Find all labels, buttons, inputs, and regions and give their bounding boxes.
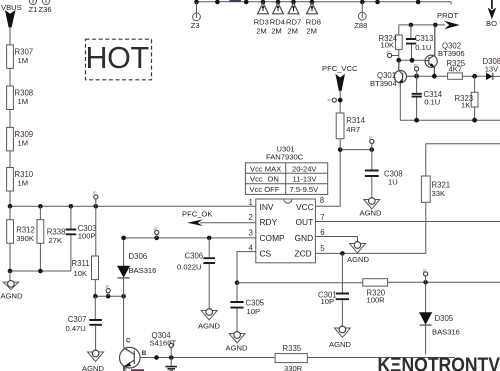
svg-text:8: 8 [320, 196, 324, 205]
wire PROT rail [399, 23, 445, 28]
label U301 [266, 144, 304, 161]
svg-text:RD7: RD7 [286, 18, 301, 27]
ground AGND below C305 [226, 332, 248, 353]
svg-text:1K: 1K [461, 101, 470, 110]
capacitor C308 [365, 150, 403, 200]
resistor R314 [336, 113, 365, 150]
test point above base bus [168, 340, 173, 357]
svg-text:JP: JP [168, 340, 173, 344]
svg-text:JP: JP [154, 227, 159, 231]
resistor R323 [455, 76, 479, 120]
svg-text:AGND: AGND [226, 344, 248, 353]
resistor R324 [379, 25, 403, 60]
svg-text:Vcc: Vcc [250, 175, 263, 184]
svg-text:RD3: RD3 [254, 18, 269, 27]
capacitor C313 [406, 25, 433, 60]
connector Z3 [191, 2, 201, 30]
wire VCC pin8 route [315, 147, 374, 206]
svg-text:6: 6 [320, 228, 324, 237]
ground AGND below R312 [1, 271, 23, 301]
svg-text:VCC: VCC [296, 202, 314, 212]
connector Z88 [354, 2, 367, 30]
svg-text:20-24V: 20-24V [292, 164, 317, 173]
svg-text:JP: JP [369, 136, 374, 140]
resistor RD4 [270, 3, 285, 36]
svg-text:PFC_VCC: PFC_VCC [322, 64, 358, 73]
ground AGND below C308 [360, 198, 382, 218]
wire R310 to INV bus [9, 191, 11, 206]
test point above emitter rail [414, 64, 419, 77]
pin number 1 [249, 198, 253, 207]
connector Z1 [29, 0, 38, 14]
wire RDY pin2 [200, 222, 256, 224]
resistor R310 [7, 168, 34, 192]
svg-text:2: 2 [249, 213, 253, 222]
resistor R311 [72, 206, 99, 296]
svg-text:390K: 390K [16, 234, 34, 243]
svg-text:JP: JP [387, 50, 392, 54]
resistor R312 [7, 206, 35, 271]
svg-text:ZCD: ZCD [295, 249, 312, 259]
svg-text:JP: JP [327, 99, 332, 103]
transistor Q301 BT3904 [370, 60, 417, 88]
svg-text:BT3904: BT3904 [370, 79, 397, 88]
wire GND pin6 [315, 237, 357, 244]
ground AGND below C306 [198, 309, 220, 331]
wire ZCD pin5 [315, 176, 425, 256]
svg-text:Vcc OFF: Vcc OFF [250, 185, 280, 194]
svg-text:KΞNOTRONTV: KΞNOTRONTV [378, 353, 500, 371]
op-amp U301 FAN7930C body [256, 199, 316, 263]
transistor Q302 BT3906 [425, 25, 465, 76]
svg-text:5: 5 [320, 244, 325, 253]
node dots on INV bus [8, 204, 98, 209]
svg-text:1M: 1M [18, 97, 29, 106]
HOT dashed area [86, 39, 152, 80]
svg-text:AGND: AGND [82, 364, 104, 371]
test point on COMP wire [154, 227, 159, 238]
svg-text:R311: R311 [72, 259, 90, 268]
svg-text:ON: ON [268, 175, 279, 184]
resistor RD3 [254, 3, 269, 36]
resistor R338 [37, 206, 65, 271]
wire R311 bottom node [93, 294, 126, 299]
svg-text:BO: BO [486, 19, 497, 28]
svg-text:0.1U: 0.1U [415, 43, 431, 52]
ground earth below base bus [165, 358, 177, 371]
capacitor C307 [66, 296, 102, 352]
resistor R320 [363, 279, 388, 305]
wire VBUS to R307 [9, 27, 11, 45]
pin number 4 [249, 244, 254, 253]
svg-text:1M: 1M [18, 179, 29, 188]
resistor RD7 [286, 3, 301, 36]
diode D306 BAS316 [117, 238, 156, 296]
svg-text:CS: CS [260, 249, 272, 259]
svg-text:10P: 10P [247, 307, 261, 316]
svg-text:Vcc MAX: Vcc MAX [250, 164, 281, 173]
svg-text:COMP: COMP [260, 233, 286, 243]
svg-text:PROT: PROT [437, 11, 458, 20]
net PFC_OK [182, 209, 212, 226]
wire R309-R310 [9, 151, 11, 168]
svg-text:10P: 10P [321, 297, 335, 306]
wire base rail y60 [396, 58, 425, 63]
svg-text:0.1U: 0.1U [424, 98, 440, 107]
svg-text:HOT: HOT [86, 41, 149, 75]
resistor RD8 [306, 3, 321, 36]
svg-text:13V: 13V [485, 64, 499, 73]
svg-text:27K: 27K [49, 236, 63, 245]
capacitor C301 [318, 253, 349, 328]
resistor R325 [447, 59, 487, 79]
svg-text:R314: R314 [346, 116, 365, 125]
svg-text:RDY: RDY [260, 217, 278, 227]
svg-text:INV: INV [260, 202, 274, 212]
net VBUS [1, 3, 22, 28]
pin number 2 [249, 213, 253, 222]
wire bottom of R312/R338/C303 [8, 269, 71, 274]
resistor R307 [7, 45, 34, 69]
capacitor C303 [66, 206, 97, 271]
test point at PFC_VCC node [327, 98, 337, 103]
wire Q304 base bus [140, 355, 455, 360]
transistor Q304 S4160T [120, 331, 177, 371]
svg-text:1U: 1U [388, 177, 398, 186]
diode D305 BAS316 [419, 282, 460, 354]
test point above R311 top [93, 191, 98, 206]
ground AGND below C307 [82, 350, 104, 371]
wire bottom rail y120 [400, 86, 500, 123]
svg-text:1: 1 [249, 198, 253, 207]
svg-text:7.5-9.5V: 7.5-9.5V [290, 185, 320, 194]
svg-text:33K: 33K [432, 189, 446, 198]
svg-text:BAS316: BAS316 [129, 266, 157, 275]
ground AGND pin6 [347, 242, 369, 264]
svg-text:JP: JP [93, 191, 98, 195]
wire top bus [197, 2, 452, 5]
svg-text:D306: D306 [129, 252, 148, 261]
resistor R335 [275, 344, 307, 371]
svg-text:2M: 2M [306, 27, 317, 36]
test point above C308 [369, 136, 374, 149]
pin number 6 [320, 228, 324, 237]
svg-text:VBUS: VBUS [1, 3, 22, 12]
test point above R320 node [423, 269, 428, 283]
svg-text:C313: C313 [415, 34, 434, 43]
svg-text:JP: JP [414, 64, 419, 68]
test point left of R324 bottom [387, 50, 399, 58]
svg-text:10K: 10K [74, 269, 88, 278]
net PFC_VCC [322, 64, 358, 91]
pin number 8 [320, 196, 324, 205]
net PROT [437, 11, 460, 30]
resistor R321 [421, 144, 500, 203]
svg-text:Z3: Z3 [191, 21, 200, 30]
svg-text:RD4: RD4 [270, 18, 285, 27]
svg-text:GND: GND [295, 233, 314, 243]
net BO arrow [486, 0, 497, 28]
svg-text:Z36: Z36 [39, 5, 52, 14]
ground AGND below C301 [329, 326, 351, 349]
svg-text:11-13V: 11-13V [293, 175, 318, 184]
node junction dots on top bus [194, 0, 420, 4]
resistor R308 [7, 86, 34, 110]
svg-text:PFC_OK: PFC_OK [182, 209, 212, 218]
svg-text:10K: 10K [381, 41, 395, 50]
diode D308 13V [483, 57, 500, 80]
test point at R311 bottom [105, 285, 110, 296]
net label fragment on top bus [230, 0, 242, 2]
capacitor C306 [177, 238, 215, 311]
svg-text:OUT: OUT [296, 217, 314, 227]
label fragment cut at bottom below Q304 [131, 369, 144, 371]
wire PFC_VCC to R314 [338, 90, 343, 113]
wire R320 to right edge [388, 280, 500, 285]
wire D306 node to Q304 collector [123, 296, 125, 347]
svg-text:100R: 100R [367, 295, 386, 304]
svg-text:B: B [142, 350, 147, 357]
wire CS pin4 route [235, 252, 256, 285]
svg-text:1M: 1M [18, 56, 29, 65]
svg-text:7: 7 [320, 213, 324, 222]
svg-text:Z88: Z88 [354, 21, 367, 30]
watermark KENOTRONTV [378, 353, 500, 371]
table Vcc specs [245, 163, 327, 195]
svg-text:3: 3 [249, 228, 253, 237]
svg-text:JP: JP [423, 269, 428, 273]
svg-text:4R7: 4R7 [346, 125, 360, 134]
svg-text:330R: 330R [284, 364, 303, 371]
svg-text:0.47U: 0.47U [66, 324, 86, 333]
svg-text:Z1: Z1 [29, 5, 38, 14]
svg-text:C306: C306 [185, 251, 204, 260]
svg-text:AGND: AGND [1, 292, 23, 301]
svg-text:AGND: AGND [347, 255, 369, 264]
capacitor C305 [230, 283, 264, 334]
capacitor C314 [412, 76, 443, 120]
wire emitter rail y76 [407, 74, 448, 79]
wire COMP pin3 [121, 236, 256, 241]
svg-text:BT3906: BT3906 [438, 49, 465, 58]
svg-text:AGND: AGND [198, 321, 220, 330]
wire CS node to R320 [237, 282, 363, 284]
svg-text:1M: 1M [18, 139, 29, 148]
svg-text:4K7: 4K7 [449, 65, 463, 74]
svg-text:JP: JP [105, 285, 110, 289]
wire R308-R309 [9, 110, 11, 128]
svg-text:AGND: AGND [329, 340, 351, 349]
wire OUT pin7 [315, 221, 500, 223]
svg-text:BAS316: BAS316 [432, 327, 460, 336]
svg-text:0.022U: 0.022U [177, 262, 202, 271]
svg-text:100P: 100P [78, 232, 96, 241]
wire R307-R308 [9, 68, 11, 86]
svg-text:2M: 2M [271, 27, 282, 36]
pin number 3 [249, 228, 253, 237]
pin number 5 [320, 244, 325, 253]
connector Z36 [39, 0, 52, 14]
svg-text:AGND: AGND [360, 209, 382, 218]
svg-text:FAN7930C: FAN7930C [266, 152, 304, 161]
svg-text:D305: D305 [435, 314, 454, 323]
svg-text:E: E [123, 366, 128, 371]
svg-text:2M: 2M [287, 27, 298, 36]
svg-text:C307: C307 [68, 315, 87, 324]
svg-text:2M: 2M [256, 27, 267, 36]
svg-text:R335: R335 [283, 344, 302, 353]
wire INV bus y206 [10, 205, 256, 207]
svg-text:C: C [126, 337, 131, 344]
svg-text:RD8: RD8 [306, 18, 321, 27]
pin number 7 [320, 213, 324, 222]
resistor R309 [7, 127, 34, 150]
